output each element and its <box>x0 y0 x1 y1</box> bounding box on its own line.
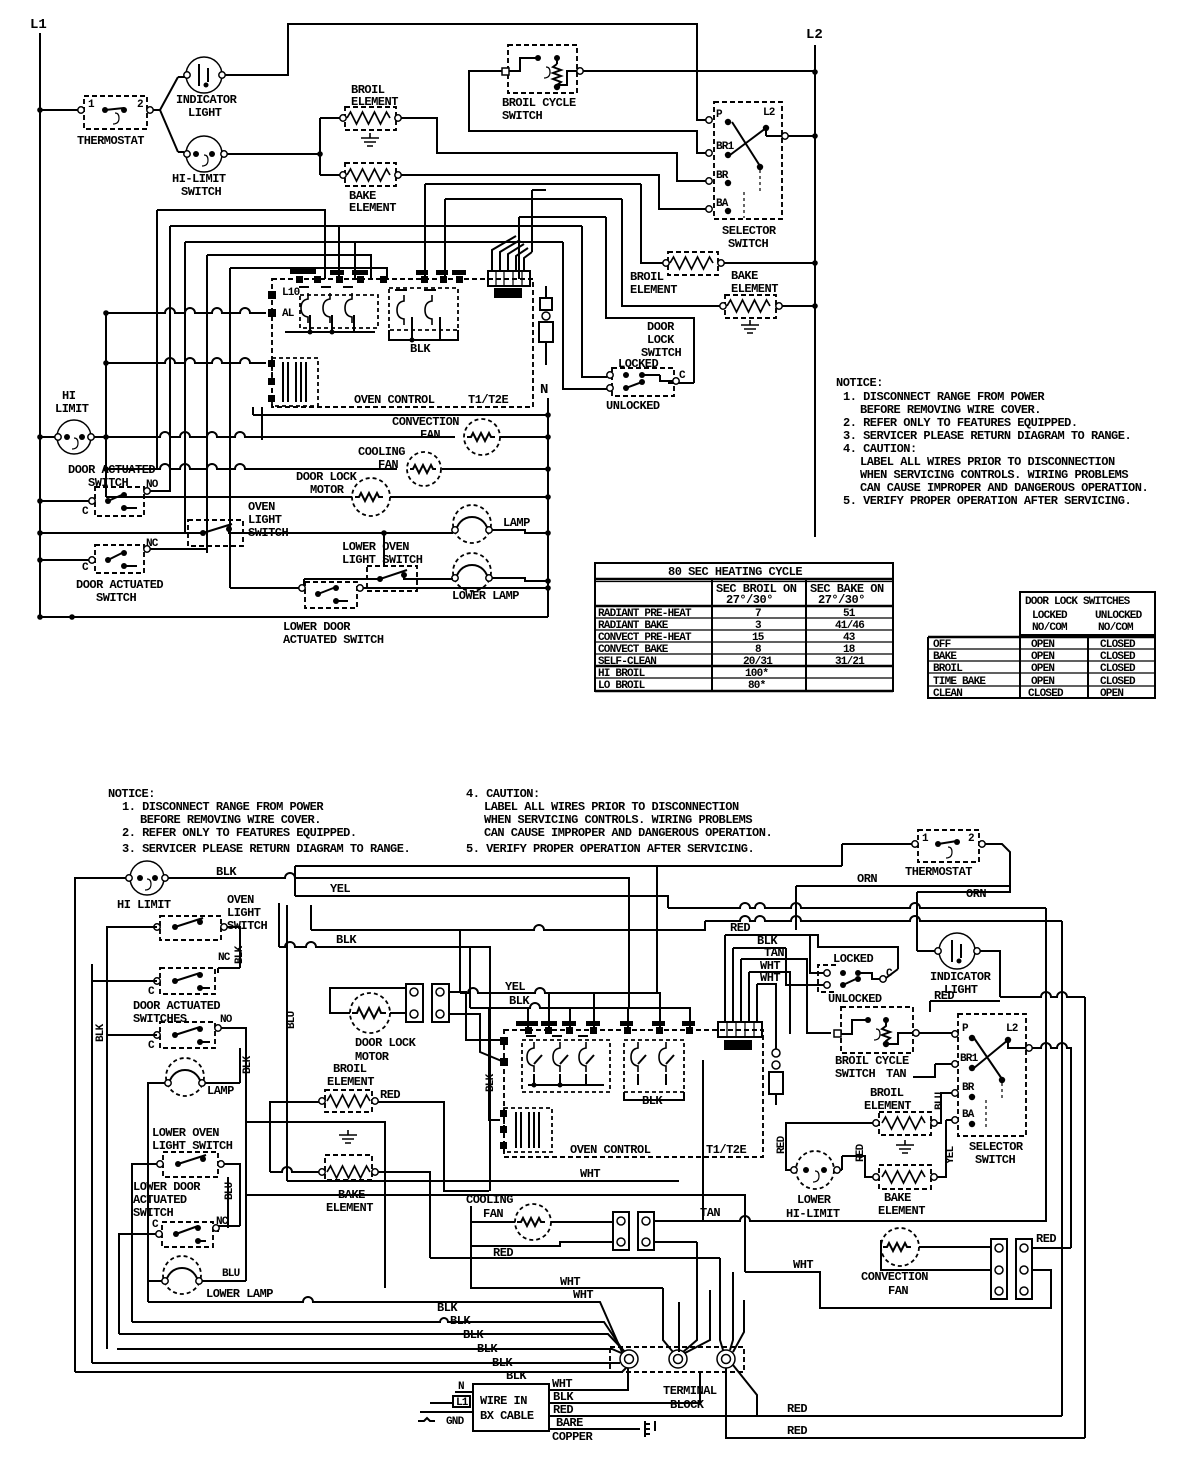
svg-text:BLK: BLK <box>216 865 237 879</box>
svg-text:4. CAUTION:: 4. CAUTION: <box>843 442 917 456</box>
relay bank 1 <box>522 1040 610 1092</box>
bake element upper right <box>720 269 782 318</box>
wire lamp to N <box>492 530 548 533</box>
svg-text:HI-LIMIT: HI-LIMIT <box>786 1207 840 1221</box>
svg-text:4. CAUTION:: 4. CAUTION: <box>466 787 540 801</box>
svg-text:CONVECTION: CONVECTION <box>392 415 459 429</box>
svg-text:BROIL: BROIL <box>630 270 664 284</box>
svg-text:ACTUATED: ACTUATED <box>133 1193 187 1207</box>
svg-text:3. SERVICER PLEASE RETURN DIAG: 3. SERVICER PLEASE RETURN DIAGRAM TO RAN… <box>122 842 410 856</box>
wire door sw2 row <box>40 549 207 560</box>
wire broil cycle sw right to L2 <box>583 70 815 72</box>
wire selector L2 out <box>788 135 815 137</box>
relay bank 2 <box>624 1040 684 1092</box>
control top-right connector <box>718 1022 762 1050</box>
svg-text:RED: RED <box>787 1424 807 1438</box>
svg-text:BLU: BLU <box>224 1182 236 1200</box>
svg-text:15: 15 <box>752 632 765 644</box>
svg-text:41/46: 41/46 <box>835 620 864 632</box>
svg-text:TERMINAL: TERMINAL <box>663 1384 717 1398</box>
svg-text:OVEN: OVEN <box>227 893 254 907</box>
svg-text:WHT: WHT <box>580 1167 600 1181</box>
wire broil element to selector BR <box>401 118 706 181</box>
relay bank 1 <box>300 295 378 328</box>
convection fan <box>392 415 500 455</box>
svg-text:CLOSED: CLOSED <box>1100 639 1136 651</box>
wire broil2 to L2 <box>724 262 815 264</box>
svg-text:ACTUATED SWITCH: ACTUATED SWITCH <box>283 633 384 647</box>
svg-text:LOWER OVEN: LOWER OVEN <box>342 540 409 554</box>
wire top bus <box>224 24 706 120</box>
wire N rail <box>547 398 549 617</box>
svg-text:L10: L10 <box>282 287 300 299</box>
svg-text:YEL: YEL <box>505 980 525 994</box>
wire broil cycle feeds <box>913 1033 952 1077</box>
convection fan bottom <box>861 1228 928 1298</box>
lamp <box>165 1058 234 1098</box>
svg-text:2. REFER ONLY TO FEATURES EQUI: 2. REFER ONLY TO FEATURES EQUIPPED. <box>122 826 357 840</box>
svg-text:WHEN SERVICING CONTROLS. WIRIN: WHEN SERVICING CONTROLS. WIRING PROBLEMS <box>860 468 1128 482</box>
svg-text:FAN: FAN <box>378 458 398 472</box>
svg-text:SELECTOR: SELECTOR <box>969 1140 1024 1154</box>
svg-text:YEL: YEL <box>330 882 350 896</box>
svg-text:CLOSED: CLOSED <box>1028 688 1064 700</box>
wire bus row 4 <box>311 916 1062 930</box>
terminal block <box>610 1347 744 1412</box>
svg-text:1. DISCONNECT RANGE FROM POWER: 1. DISCONNECT RANGE FROM POWER <box>122 800 324 814</box>
transformer <box>504 1108 552 1152</box>
TOP_DIAGRAM_START <box>30 17 823 647</box>
wire top bus upper <box>295 866 842 993</box>
svg-text:LAMP: LAMP <box>207 1084 234 1098</box>
svg-text:ORN: ORN <box>857 872 877 886</box>
wire door lock motor loop <box>330 988 504 1062</box>
wire broil left feeds <box>270 1102 489 1191</box>
svg-text:L2: L2 <box>1006 1023 1018 1035</box>
wire selector L2 out <box>1032 1043 1071 1248</box>
wire convection fan row <box>106 432 548 437</box>
svg-text:SWITCH: SWITCH <box>975 1153 1016 1167</box>
svg-text:NO: NO <box>220 1014 233 1026</box>
svg-text:ELEMENT: ELEMENT <box>349 201 396 215</box>
svg-text:CAN CAUSE IMPROPER AND DANGERO: CAN CAUSE IMPROPER AND DANGEROUS OPERATI… <box>860 481 1148 495</box>
svg-text:LABEL ALL WIRES PRIOR TO DISCO: LABEL ALL WIRES PRIOR TO DISCONNECTION <box>860 455 1115 469</box>
svg-text:LOWER DOOR: LOWER DOOR <box>283 620 351 634</box>
selector switch bottom <box>952 1014 1032 1167</box>
svg-text:BLK: BLK <box>410 342 431 356</box>
svg-text:BR1: BR1 <box>716 141 735 153</box>
bake element <box>340 163 401 215</box>
svg-text:2: 2 <box>968 833 974 845</box>
svg-text:RED: RED <box>776 1135 788 1154</box>
cooling fan <box>358 445 441 486</box>
svg-text:WHT: WHT <box>573 1288 593 1302</box>
relay bank 2 <box>389 288 458 330</box>
svg-text:BLK: BLK <box>95 1023 107 1042</box>
ground <box>645 1421 655 1437</box>
svg-text:WHEN SERVICING CONTROLS. WIRIN: WHEN SERVICING CONTROLS. WIRING PROBLEMS <box>484 813 752 827</box>
svg-text:NC: NC <box>218 952 231 964</box>
svg-text:ELEMENT: ELEMENT <box>864 1099 911 1113</box>
oven control box bottom <box>500 1021 763 1157</box>
wire lower door sw row <box>230 587 548 589</box>
svg-text:18: 18 <box>843 644 856 656</box>
right nest tops <box>425 184 641 279</box>
broil element <box>340 83 401 130</box>
svg-text:L2: L2 <box>806 27 823 43</box>
svg-text:CONVECT BAKE: CONVECT BAKE <box>598 644 669 656</box>
wire cooling fan loops <box>471 1206 613 1246</box>
svg-text:OPEN: OPEN <box>1031 676 1054 688</box>
capacitor column <box>539 286 553 365</box>
svg-text:ORN: ORN <box>966 887 986 901</box>
svg-text:OPEN: OPEN <box>1100 688 1123 700</box>
svg-text:BROIL CYCLE: BROIL CYCLE <box>502 96 576 110</box>
wire door lock motor row <box>106 496 548 498</box>
thermostat <box>77 96 153 148</box>
svg-text:LIGHT: LIGHT <box>248 513 282 527</box>
svg-text:SELF-CLEAN: SELF-CLEAN <box>598 656 656 668</box>
svg-text:INDICATOR: INDICATOR <box>930 970 992 984</box>
svg-text:SWITCH: SWITCH <box>133 1206 174 1220</box>
wire lower lamp row <box>304 576 548 581</box>
wire control drops <box>528 993 628 1027</box>
svg-text:BLK: BLK <box>553 1390 574 1404</box>
svg-text:RED: RED <box>1036 1232 1056 1246</box>
svg-text:SWITCH: SWITCH <box>502 109 543 123</box>
svg-text:DOOR: DOOR <box>647 320 675 334</box>
svg-text:FAN: FAN <box>420 428 440 442</box>
svg-text:L1: L1 <box>30 17 47 33</box>
svg-text:RED: RED <box>730 921 750 935</box>
wire RED row right <box>930 992 1085 1438</box>
svg-text:SWITCH: SWITCH <box>181 185 222 199</box>
svg-text:100*: 100* <box>745 668 768 680</box>
svg-text:BLK: BLK <box>477 1342 498 1356</box>
svg-text:20/31: 20/31 <box>743 656 773 668</box>
svg-text:LOWER DOOR: LOWER DOOR <box>133 1180 201 1194</box>
svg-text:BR1: BR1 <box>960 1053 979 1065</box>
wire convection fan loops <box>881 1247 991 1270</box>
svg-text:CLOSED: CLOSED <box>1100 663 1136 675</box>
svg-text:DOOR LOCK: DOOR LOCK <box>355 1036 417 1050</box>
svg-text:LOWER LAMP: LOWER LAMP <box>206 1287 273 1301</box>
wire enclosing box bottom <box>702 1060 704 1221</box>
transformer <box>272 358 318 406</box>
svg-text:RADIANT BAKE: RADIANT BAKE <box>598 620 669 632</box>
svg-text:OPEN: OPEN <box>1031 663 1054 675</box>
oven control box <box>268 268 533 407</box>
cooling fan <box>466 1193 551 1240</box>
wire hi-limit left drop <box>75 878 126 1372</box>
svg-text:BLK: BLK <box>492 1356 513 1370</box>
svg-text:BROIL: BROIL <box>933 663 963 675</box>
door actuated switch 1 <box>68 463 159 518</box>
svg-text:BROIL CYCLE: BROIL CYCLE <box>835 1054 909 1068</box>
svg-text:BLK: BLK <box>450 1314 471 1328</box>
svg-text:COOLING: COOLING <box>358 445 405 459</box>
svg-text:HI: HI <box>62 389 76 403</box>
wire L1 rail <box>39 33 41 617</box>
svg-text:L2: L2 <box>763 107 775 119</box>
svg-text:LABEL ALL WIRES PRIOR TO DISCO: LABEL ALL WIRES PRIOR TO DISCONNECTION <box>484 800 739 814</box>
svg-text:3. SERVICER PLEASE RETURN DIAG: 3. SERVICER PLEASE RETURN DIAGRAM TO RAN… <box>843 429 1131 443</box>
lower lamp <box>452 553 520 603</box>
wire lower lamp feeds <box>148 1280 246 1282</box>
svg-text:NOTICE:: NOTICE: <box>108 787 155 801</box>
BOTTOM_DIAGRAM_START <box>75 861 1062 1372</box>
svg-text:BLU: BLU <box>222 1268 240 1280</box>
wire L2 rail <box>814 45 816 537</box>
svg-text:DOOR ACTUATED: DOOR ACTUATED <box>76 578 163 592</box>
svg-text:BROIL: BROIL <box>333 1062 367 1076</box>
svg-text:UNLOCKED: UNLOCKED <box>828 992 882 1006</box>
oven light switch <box>154 893 268 940</box>
heating cycle table <box>595 563 893 692</box>
door lock motor <box>350 993 417 1064</box>
svg-text:INDICATOR: INDICATOR <box>176 93 238 107</box>
left nest verticals <box>157 210 582 588</box>
svg-text:BLK: BLK <box>463 1328 484 1342</box>
bus row B <box>106 358 266 363</box>
svg-text:LIGHT: LIGHT <box>188 106 222 120</box>
svg-text:T1/T2E: T1/T2E <box>468 393 509 407</box>
svg-text:RED: RED <box>553 1403 573 1417</box>
svg-text:CAN CAUSE IMPROPER AND DANGERO: CAN CAUSE IMPROPER AND DANGEROUS OPERATI… <box>484 826 772 840</box>
lower oven light switch <box>342 540 423 591</box>
lower hi-limit <box>786 1151 840 1221</box>
svg-text:BLK: BLK <box>242 1055 254 1074</box>
svg-text:ELEMENT: ELEMENT <box>731 282 778 296</box>
ground <box>339 1130 357 1143</box>
svg-text:1. DISCONNECT RANGE FROM POWER: 1. DISCONNECT RANGE FROM POWER <box>843 390 1045 404</box>
svg-text:LOCKED: LOCKED <box>833 952 874 966</box>
svg-text:WHT: WHT <box>560 1275 580 1289</box>
wire feeds to right elements <box>606 184 720 383</box>
svg-text:TIME BAKE: TIME BAKE <box>933 676 986 688</box>
svg-text:THERMOSTAT: THERMOSTAT <box>905 865 972 879</box>
svg-text:TAN: TAN <box>886 1067 906 1081</box>
svg-text:LOWER LAMP: LOWER LAMP <box>452 589 519 603</box>
wire L1 to thermostat <box>40 109 80 111</box>
ground <box>741 320 759 333</box>
wire bake2 to L2 <box>782 305 815 307</box>
wire connector rises <box>492 190 546 271</box>
svg-text:LO BROIL: LO BROIL <box>598 680 646 692</box>
svg-text:BROIL: BROIL <box>870 1086 904 1100</box>
wire BLK drop to transformer <box>489 1008 500 1120</box>
svg-text:SWITCH: SWITCH <box>835 1067 876 1081</box>
wire bake element to selector BA <box>401 175 706 209</box>
lower oven light switch <box>152 1126 233 1177</box>
svg-text:UNLOCKED: UNLOCKED <box>606 399 660 413</box>
wire broil right feeds <box>786 1123 873 1170</box>
bake element right <box>873 1165 937 1218</box>
door lock motor connectors <box>406 984 449 1022</box>
svg-text:CONVECT PRE-HEAT: CONVECT PRE-HEAT <box>598 632 692 644</box>
door lock switch <box>606 320 686 413</box>
svg-text:ELEMENT: ELEMENT <box>630 283 677 297</box>
svg-text:BAKE: BAKE <box>884 1191 911 1205</box>
svg-text:NO/COM: NO/COM <box>1098 622 1134 634</box>
svg-text:OVEN CONTROL: OVEN CONTROL <box>570 1143 651 1157</box>
svg-text:TAN: TAN <box>764 946 784 960</box>
svg-text:BX CABLE: BX CABLE <box>480 1409 534 1423</box>
svg-text:DOOR ACTUATED: DOOR ACTUATED <box>68 463 155 477</box>
wire hi-limit row <box>40 313 106 497</box>
svg-text:WHT: WHT <box>552 1377 572 1391</box>
wire bottom bus <box>40 616 548 618</box>
svg-text:OPEN: OPEN <box>1031 639 1054 651</box>
ground <box>896 1140 914 1153</box>
svg-text:BA: BA <box>962 1109 975 1121</box>
lower door actuated switch <box>133 1180 236 1247</box>
wire door switches feeds <box>92 981 246 1363</box>
wire connector row2 <box>654 1241 697 1243</box>
broil element right <box>864 1086 937 1135</box>
oven control top connector <box>488 271 530 298</box>
svg-text:DOOR LOCK SWITCHES: DOOR LOCK SWITCHES <box>1025 596 1131 608</box>
svg-text:CLEAN: CLEAN <box>933 688 962 700</box>
svg-text:COPPER: COPPER <box>552 1430 594 1444</box>
svg-text:HI BROIL: HI BROIL <box>598 668 646 680</box>
wire lower door sw feeds <box>119 1177 228 1334</box>
svg-text:80 SEC HEATING CYCLE: 80 SEC HEATING CYCLE <box>668 565 802 579</box>
svg-text:5. VERIFY PROPER OPERATION AFT: 5. VERIFY PROPER OPERATION AFTER SERVICI… <box>843 494 1131 508</box>
svg-text:HI LIMIT: HI LIMIT <box>117 898 171 912</box>
wire cooling fan row <box>106 464 548 469</box>
svg-text:2: 2 <box>137 99 143 111</box>
svg-text:RED: RED <box>380 1088 400 1102</box>
svg-text:CLOSED: CLOSED <box>1100 676 1136 688</box>
hi limit <box>117 861 171 912</box>
hi limit lower left <box>55 389 94 454</box>
wire bake right feeds <box>840 1156 873 1177</box>
svg-text:LIGHT: LIGHT <box>227 906 261 920</box>
svg-text:LOCKED: LOCKED <box>1032 610 1068 622</box>
svg-text:7: 7 <box>755 608 761 620</box>
svg-text:COOLING: COOLING <box>466 1193 513 1207</box>
indicator light bottom <box>930 933 992 997</box>
svg-text:LIMIT: LIMIT <box>55 402 89 416</box>
wire lamp BLK line <box>148 1297 622 1352</box>
svg-text:NO/COM: NO/COM <box>1032 622 1068 634</box>
svg-text:WIRE IN: WIRE IN <box>480 1394 527 1408</box>
svg-text:OVEN CONTROL: OVEN CONTROL <box>354 393 435 407</box>
svg-text:80*: 80* <box>748 680 766 692</box>
svg-text:UNLOCKED: UNLOCKED <box>1095 610 1143 622</box>
svg-text:LIGHT SWITCH: LIGHT SWITCH <box>342 553 423 567</box>
svg-text:2. REFER ONLY TO FEATURES EQUI: 2. REFER ONLY TO FEATURES EQUIPPED. <box>843 416 1078 430</box>
NOTICES_TABLES_START <box>836 376 1148 508</box>
svg-text:RADIANT PRE-HEAT: RADIANT PRE-HEAT <box>598 608 692 620</box>
svg-text:LOCK: LOCK <box>647 333 675 347</box>
hi-limit switch <box>172 136 227 199</box>
broil cycle switch bottom <box>834 1007 919 1081</box>
svg-text:BAKE: BAKE <box>731 269 758 283</box>
ground <box>361 133 379 146</box>
lamp <box>452 505 530 543</box>
wire thermostat fork <box>153 77 185 152</box>
wire bus rows right mid <box>1045 908 1047 1222</box>
svg-text:51: 51 <box>843 608 856 620</box>
wire terminal lug3 to RED lines <box>726 1365 1085 1438</box>
svg-text:NOTICE:: NOTICE: <box>836 376 883 390</box>
svg-text:RED: RED <box>787 1402 807 1416</box>
wire under oven control <box>253 407 548 440</box>
indicator light <box>176 57 238 120</box>
wire lamp feeds <box>148 1083 240 1302</box>
svg-text:BLK: BLK <box>642 1094 663 1108</box>
lower lamp <box>162 1256 274 1301</box>
broil element upper right <box>630 252 724 297</box>
wire mid line 2 <box>246 1122 385 1288</box>
wire oven light row <box>40 530 453 566</box>
svg-text:43: 43 <box>843 632 856 644</box>
wire in bx cable <box>418 1381 549 1431</box>
svg-text:FAN: FAN <box>888 1284 908 1298</box>
wire lug feeds from above <box>663 1242 744 1353</box>
svg-text:BLK: BLK <box>485 1073 497 1092</box>
wire mid line <box>246 1195 745 1272</box>
svg-text:MOTOR: MOTOR <box>310 483 345 497</box>
broil cycle switch <box>502 45 583 123</box>
svg-text:WHT: WHT <box>760 971 780 985</box>
svg-text:SELECTOR: SELECTOR <box>722 224 777 238</box>
svg-text:LAMP: LAMP <box>503 516 530 530</box>
svg-text:WHT: WHT <box>793 1258 813 1272</box>
broil element left <box>319 1062 401 1112</box>
svg-text:LIGHT SWITCH: LIGHT SWITCH <box>152 1139 233 1153</box>
svg-text:BAKE: BAKE <box>933 651 957 663</box>
svg-text:THERMOSTAT: THERMOSTAT <box>77 134 144 148</box>
svg-text:ELEMENT: ELEMENT <box>326 1201 373 1215</box>
selector switch <box>706 102 788 251</box>
door actuated switches <box>133 968 233 1052</box>
wire bake left feeds <box>270 1167 430 1258</box>
svg-text:GND: GND <box>446 1416 465 1428</box>
cooling fan connectors <box>613 1212 654 1250</box>
convection fan connectors <box>991 1239 1032 1299</box>
svg-text:ELEMENT: ELEMENT <box>351 95 398 109</box>
svg-text:BLK: BLK <box>234 945 246 964</box>
svg-text:BARE: BARE <box>556 1416 583 1430</box>
door actuated switch 2 <box>76 538 163 605</box>
bus row A <box>106 308 266 313</box>
svg-text:OPEN: OPEN <box>1031 651 1054 663</box>
svg-text:FAN: FAN <box>483 1207 503 1221</box>
oven light switch <box>188 500 289 546</box>
svg-text:T1/T2E: T1/T2E <box>706 1143 747 1157</box>
svg-text:LOWER OVEN: LOWER OVEN <box>152 1126 219 1140</box>
svg-text:BLK: BLK <box>336 933 357 947</box>
svg-text:AL: AL <box>282 308 295 320</box>
svg-text:DOOR LOCK: DOOR LOCK <box>296 470 358 484</box>
svg-text:BR: BR <box>962 1082 975 1094</box>
svg-text:BLK: BLK <box>437 1301 458 1315</box>
svg-text:BLK: BLK <box>509 994 530 1008</box>
bake element left <box>319 1155 378 1215</box>
svg-text:N: N <box>540 382 548 398</box>
svg-text:L1: L1 <box>456 1397 469 1409</box>
svg-text:BEFORE REMOVING WIRE COVER.: BEFORE REMOVING WIRE COVER. <box>140 813 321 827</box>
svg-text:SWITCH: SWITCH <box>728 237 769 251</box>
wire door lock switch left feeds <box>563 226 607 389</box>
thermostat bottom <box>905 830 985 879</box>
svg-text:HI-LIMIT: HI-LIMIT <box>172 172 226 186</box>
locked unlocked switch bottom <box>818 952 893 1006</box>
wire broil cycle sw left loop to BR1 <box>469 71 706 153</box>
